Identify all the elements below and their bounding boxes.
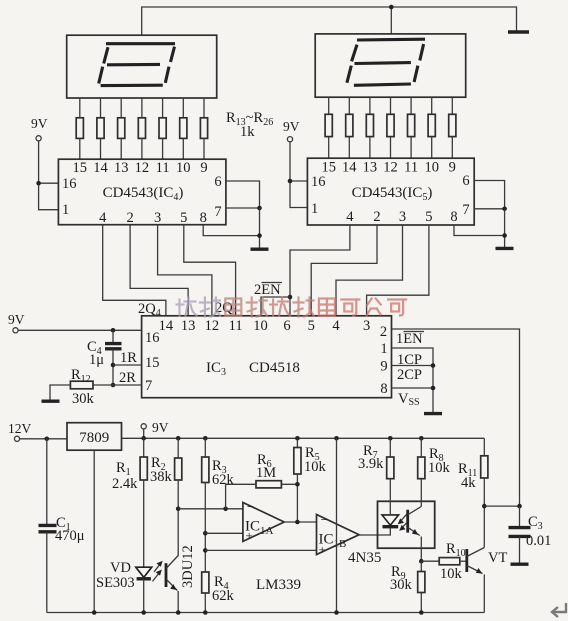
regulator U2 7809 xyxy=(67,423,122,451)
resistor R14 xyxy=(97,118,104,139)
svg-text:CD4518: CD4518 xyxy=(249,360,300,376)
wire: IC1A output to IC1B xyxy=(284,521,316,523)
svg-text:14: 14 xyxy=(159,318,174,334)
svg-text:2: 2 xyxy=(373,209,380,225)
resistor R10 10k xyxy=(421,541,467,582)
9V terminal (left, IC4 supply) xyxy=(31,116,48,141)
wire: IC4 pin8 to ground net xyxy=(203,225,259,236)
svg-text:−: − xyxy=(247,499,254,514)
label 2EN with overline xyxy=(254,282,282,298)
optocoupler U3 4N35 xyxy=(348,501,435,566)
ground (IC4) xyxy=(251,247,269,250)
svg-text:2R: 2R xyxy=(119,370,136,386)
node: rail junctions xyxy=(141,436,423,441)
svg-text:16: 16 xyxy=(62,176,77,192)
svg-text:9V: 9V xyxy=(31,116,48,131)
7-segment display DS2 (right) xyxy=(315,34,466,97)
node: IC5 pin8 junction xyxy=(502,233,507,238)
wire: IC5 pin3 to IC3 pin4 xyxy=(336,225,403,316)
wire: 12V input to 7809 xyxy=(20,438,67,440)
svg-text:10k: 10k xyxy=(428,460,451,476)
svg-text:VD: VD xyxy=(110,560,131,576)
resistor R6 1M (feedback) xyxy=(226,452,298,509)
svg-text:1M: 1M xyxy=(256,465,276,481)
wire: IC4 pin4 to IC3 pin14 xyxy=(103,225,166,316)
svg-text:14: 14 xyxy=(93,160,108,176)
resistor R3 62k xyxy=(202,438,235,572)
svg-text:9V: 9V xyxy=(283,119,300,134)
svg-text:1: 1 xyxy=(62,202,69,218)
svg-text:8: 8 xyxy=(200,210,207,226)
node: R11/VT collector junction xyxy=(482,504,487,509)
svg-text:3: 3 xyxy=(399,209,406,225)
svg-text:15: 15 xyxy=(145,355,160,371)
node: C4 junction xyxy=(111,328,116,333)
svg-text:7809: 7809 xyxy=(79,430,109,446)
capacitor C4 xyxy=(87,330,122,385)
node: emitter/R9/R10 junction xyxy=(419,559,424,564)
comparator IC1B xyxy=(317,512,360,557)
svg-text:2.4k: 2.4k xyxy=(112,476,138,492)
node: 2EN junction xyxy=(288,295,293,300)
svg-text:1EN: 1EN xyxy=(396,331,423,347)
svg-text:4: 4 xyxy=(346,209,354,225)
wire: to IC3 pin15 (1R) xyxy=(113,364,142,366)
svg-text:1: 1 xyxy=(380,341,387,357)
resistor R21 xyxy=(346,114,353,136)
wire: IC5 pin7 xyxy=(474,208,504,210)
wire: IC4 pin7 xyxy=(226,207,260,209)
svg-text:9V: 9V xyxy=(152,420,169,435)
svg-text:470μ: 470μ xyxy=(55,528,85,544)
svg-text:30k: 30k xyxy=(390,577,413,593)
9V terminal (rail) xyxy=(141,420,169,438)
op IC5 CD4543 xyxy=(307,158,474,225)
wire: tap to IC1A inverting input xyxy=(178,508,243,510)
svg-text:38k: 38k xyxy=(150,469,173,485)
node: 1R junction xyxy=(111,363,116,368)
wire: IC4 pin3 to IC3 pin12 xyxy=(158,225,212,316)
transistor VT xyxy=(467,506,508,612)
wire: IC5 pin5 to IC3 pin3 xyxy=(367,225,429,316)
svg-text:12: 12 xyxy=(135,160,150,176)
node: IC5 pin16 junction xyxy=(288,179,293,184)
ground (IC3 pins) xyxy=(424,412,442,415)
wires: resistors to IC4 top pins xyxy=(80,138,204,159)
svg-text:16: 16 xyxy=(311,174,326,190)
label 1EN with overline xyxy=(396,331,424,347)
power bar terminal (C3 bottom) xyxy=(511,563,529,566)
wires: DS2 pins to resistors xyxy=(329,97,453,114)
svg-text:62k: 62k xyxy=(212,472,235,488)
wire: 9V to IC5 pins 16 and 1 xyxy=(290,142,307,208)
svg-text:7: 7 xyxy=(214,204,221,220)
svg-text:16: 16 xyxy=(145,330,160,346)
wire: down to ground xyxy=(259,208,261,248)
wire: LM339 supply line crossing xyxy=(336,438,338,612)
wire: 7809 ground pin xyxy=(93,450,95,612)
wire: to IC1B + input xyxy=(205,549,316,551)
resistor R16 xyxy=(138,118,145,139)
resistor R20 xyxy=(325,114,332,136)
wire: IC3 pin1 (1CP) xyxy=(392,348,434,413)
wire: bottom ground rail xyxy=(47,612,485,614)
node: C1 junction xyxy=(45,437,50,442)
svg-text:7: 7 xyxy=(145,378,152,394)
svg-text:3DU12: 3DU12 xyxy=(180,545,196,588)
resistor R1 2.4k xyxy=(112,438,147,567)
svg-text:9: 9 xyxy=(449,160,456,176)
svg-text:0.01: 0.01 xyxy=(526,533,551,549)
node: R6 branch xyxy=(223,507,228,512)
op IC4 CD4543 xyxy=(58,159,226,226)
diode VD SE303 (IR LED) xyxy=(96,560,163,613)
wire: IC3 pin8 (VSS) xyxy=(392,387,434,389)
svg-text:12V: 12V xyxy=(8,421,32,436)
svg-text:12: 12 xyxy=(383,160,398,176)
node: R6/R5 junction xyxy=(295,482,300,487)
wire: IC5 pin6 net xyxy=(474,181,504,209)
resistor R5 10k xyxy=(294,438,327,522)
svg-text:LM339: LM339 xyxy=(256,577,301,593)
svg-text:13: 13 xyxy=(114,160,129,176)
resistor R15 xyxy=(118,118,125,139)
svg-text:10k: 10k xyxy=(440,566,463,582)
node: IC4 pin16 junction xyxy=(36,181,41,186)
12V terminal xyxy=(8,421,32,441)
svg-text:2CP: 2CP xyxy=(397,367,422,383)
wire: 9V to IC4 pins 16 and 1 xyxy=(39,141,59,210)
resistor R9 30k xyxy=(390,561,425,612)
svg-text:4N35: 4N35 xyxy=(348,550,381,566)
resistor R2 38k xyxy=(150,438,182,556)
node: bottom rail junctions xyxy=(92,610,424,615)
9V terminal (IC3 supply) xyxy=(8,312,25,333)
svg-text:15: 15 xyxy=(73,160,88,176)
node: IC1B + branch xyxy=(203,548,208,553)
svg-text:VT: VT xyxy=(488,550,507,566)
svg-text:3: 3 xyxy=(363,318,370,334)
svg-text:2EN: 2EN xyxy=(254,282,281,298)
resistor R7 3.9k xyxy=(358,438,394,501)
svg-text:13: 13 xyxy=(363,160,378,176)
svg-text:12: 12 xyxy=(205,318,220,334)
wire: collector node to C3 xyxy=(484,505,519,507)
capacitor C3 0.01 xyxy=(509,506,552,563)
op IC3 CD4518 xyxy=(142,316,392,398)
node: output/R5 junction xyxy=(295,520,300,525)
svg-text:CD4543(IC5): CD4543(IC5) xyxy=(352,185,433,203)
svg-text:30k: 30k xyxy=(72,391,95,407)
svg-text:6: 6 xyxy=(214,174,221,190)
node: R2/3DU12 comparator tap xyxy=(176,507,181,512)
svg-text:5: 5 xyxy=(180,210,187,226)
wire: 9V to IC3 pin16 xyxy=(18,329,142,331)
svg-text:1μ: 1μ xyxy=(89,352,104,368)
svg-text:CD4543(IC4): CD4543(IC4) xyxy=(103,185,184,203)
svg-text:9: 9 xyxy=(380,359,387,375)
wire: top supply rail xyxy=(142,7,517,35)
svg-text:10: 10 xyxy=(424,160,439,176)
svg-text:10: 10 xyxy=(176,160,191,176)
phototransistor 3DU12 xyxy=(166,545,196,612)
resistor R13 xyxy=(76,118,83,139)
return mark (bottom-right) xyxy=(552,603,566,617)
resistor R17 xyxy=(159,118,166,139)
node: IC1A non-inverting junction xyxy=(203,531,208,536)
wire: IC4 pin6 to pin7 net xyxy=(226,181,260,208)
wire: IC3 pin2 (1EN) to right column xyxy=(392,329,520,506)
wire: 4N35 LED anode to R7 xyxy=(389,501,391,515)
ground (IC5) xyxy=(496,247,514,250)
wire: to IC1A + input xyxy=(205,532,243,534)
resistor R11 4k xyxy=(458,438,488,506)
wire: IC5 pin2 to IC3 pin5 xyxy=(311,225,377,316)
svg-text:8: 8 xyxy=(450,209,457,225)
svg-text:4: 4 xyxy=(99,210,107,226)
wire: IC1B output to 4N35 LED xyxy=(359,527,390,535)
node: pin7 junction xyxy=(257,206,262,211)
node: IC5 pin7 junction xyxy=(502,207,507,212)
svg-text:−: − xyxy=(321,512,328,527)
svg-text:2: 2 xyxy=(126,210,133,226)
svg-text:7: 7 xyxy=(462,202,469,218)
wire: 9V rail xyxy=(122,437,485,439)
wire: IC4 pin5 to IC3 pin11 xyxy=(184,225,236,316)
svg-text:14: 14 xyxy=(342,160,357,176)
svg-text:13: 13 xyxy=(181,318,196,334)
svg-text:9V: 9V xyxy=(8,312,25,327)
svg-text:1R: 1R xyxy=(120,350,137,366)
7-segment display DS1 (left) xyxy=(67,35,217,98)
svg-text:6: 6 xyxy=(462,173,469,189)
resistor R24 xyxy=(408,114,415,136)
svg-text:1k: 1k xyxy=(240,124,255,140)
resistor R26 xyxy=(449,114,456,136)
wires: DS1 segment pins to resistors xyxy=(80,98,204,118)
wire: down to ground xyxy=(504,209,506,248)
resistor R19 xyxy=(200,118,207,139)
svg-text:3.9k: 3.9k xyxy=(358,456,384,472)
svg-text:62k: 62k xyxy=(212,588,235,604)
svg-text:11: 11 xyxy=(229,318,243,334)
resistor R22 xyxy=(366,114,373,136)
node: pin8/ground junction xyxy=(257,233,262,238)
capacitor C1 470u xyxy=(39,439,85,613)
svg-text:6: 6 xyxy=(283,318,290,334)
wire: IC3 pin9 (2CP) xyxy=(392,365,434,367)
resistor R25 xyxy=(428,114,435,136)
resistor R18 xyxy=(180,118,187,139)
svg-text:1: 1 xyxy=(311,201,318,217)
wire: to IC3 pin7 (2R) xyxy=(113,384,142,386)
svg-text:10k: 10k xyxy=(304,459,327,475)
node: C3 junction xyxy=(517,504,522,509)
svg-text:2: 2 xyxy=(380,324,387,340)
power bar terminal (top right) xyxy=(508,30,529,33)
svg-text:3: 3 xyxy=(154,210,161,226)
resistor R8 10k xyxy=(418,438,451,501)
svg-text:11: 11 xyxy=(404,160,418,176)
node: VSS junction xyxy=(431,386,436,391)
wires: resistors to IC5 top pins xyxy=(329,137,453,159)
svg-text:9: 9 xyxy=(200,160,207,176)
svg-text:SE303: SE303 xyxy=(96,575,135,591)
svg-text:5: 5 xyxy=(308,318,315,334)
wire: IC5 pin4 to 1Q4/2EN net xyxy=(290,225,350,316)
resistor R4 62k xyxy=(202,572,235,613)
svg-text:11: 11 xyxy=(156,160,170,176)
svg-text:5: 5 xyxy=(425,209,432,225)
resistor R23 xyxy=(387,114,394,136)
svg-text:4: 4 xyxy=(332,318,340,334)
ground (R12) xyxy=(42,400,60,403)
wire: IC5 pin8 to ground net xyxy=(454,225,505,236)
label R13~R26 1k xyxy=(226,110,273,140)
comparator IC1A xyxy=(243,499,284,543)
watermark row xyxy=(177,298,407,317)
resistor R12 30k xyxy=(50,367,113,407)
9V terminal (right, IC5 supply) xyxy=(283,119,300,142)
node: 2CP junction xyxy=(431,363,436,368)
wire: IC4 pin2 to IC3 pin13 xyxy=(130,225,188,316)
svg-text:4k: 4k xyxy=(461,475,476,491)
svg-text:10: 10 xyxy=(253,318,268,334)
wire: 2EN stub to IC3 pin10 xyxy=(261,297,290,316)
node: junction on top rail xyxy=(389,5,394,10)
svg-text:8: 8 xyxy=(380,381,387,397)
node: 2R junction xyxy=(111,383,116,388)
